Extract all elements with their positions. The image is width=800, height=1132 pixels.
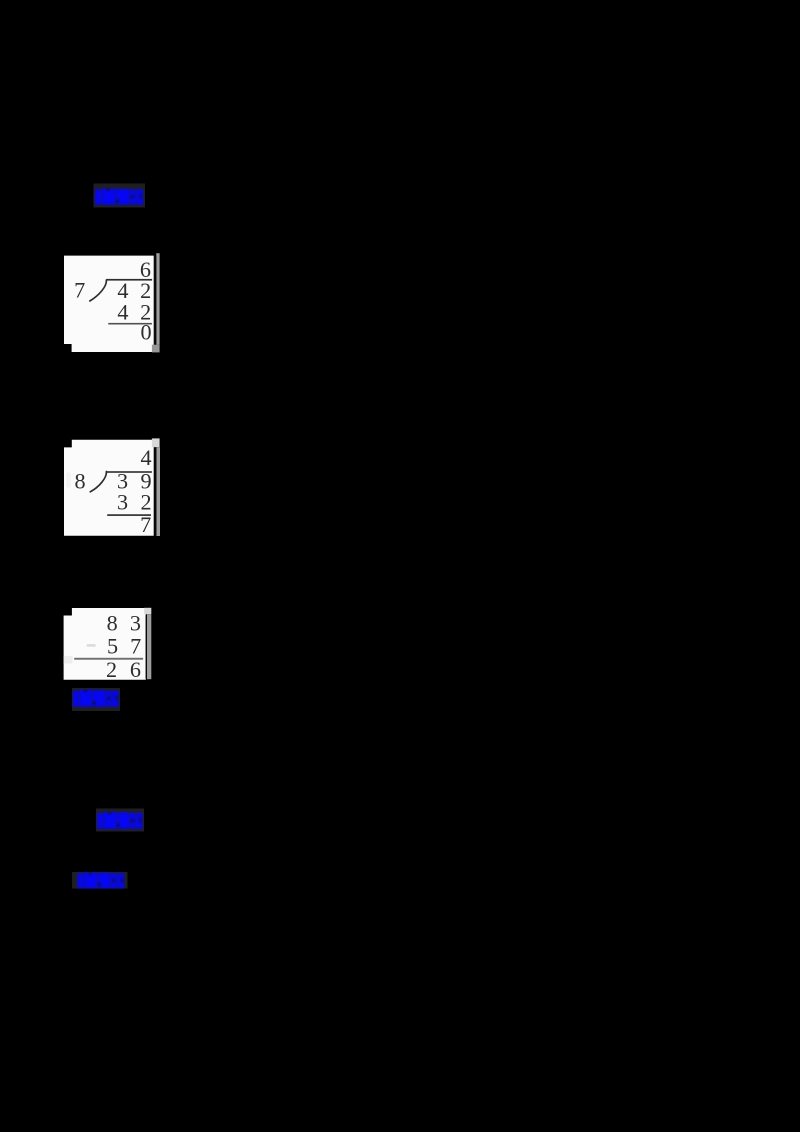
box3 grey scrollbar strip [147,614,151,679]
box2 white background [64,440,154,536]
box2 vinculum [106,471,152,473]
label B blue text [73,690,118,707]
label D highlight box [72,872,128,889]
box3 faint minus sign [87,644,96,646]
label A blue text [95,189,143,205]
label C blue text [97,812,142,829]
box3 light grey top-right chunk [144,608,151,614]
box1 grey scrollbar strip [156,253,159,345]
box1 division bracket [90,280,107,301]
box2 division bracket [90,472,106,492]
box3 black caret line [146,615,147,679]
box2 underline [107,514,151,516]
label D blue text [78,873,124,889]
box3 underline [74,658,143,660]
label C highlight box [96,809,144,832]
box1 underline [108,323,152,325]
box1 black caret line [154,256,156,344]
label A highlight box [94,184,146,208]
box2 black caret line [154,447,156,535]
box1 white background [64,256,154,352]
box2 light grey top-right chunk [152,438,160,447]
label B highlight box [72,688,120,711]
box3 white background [64,608,146,680]
box2 faint left band [66,473,70,488]
box3 faint left smudge [64,656,73,664]
box1 vinculum [107,279,153,281]
box1 grey bottom-right chunk [152,345,160,353]
box2 grey scrollbar strip [156,447,160,536]
